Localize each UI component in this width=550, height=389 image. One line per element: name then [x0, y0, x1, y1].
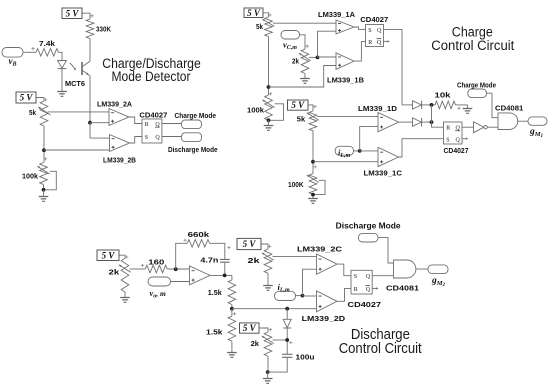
junction [285, 307, 289, 311]
wire to 1C- [360, 150, 378, 152]
wire to 1B- [318, 56, 337, 58]
ground [263, 286, 273, 291]
wire [124, 292, 126, 298]
potentiometer 2k (vC,m) [292, 49, 311, 74]
junction [430, 120, 434, 124]
potentiometer 5k [29, 101, 51, 126]
junction [285, 338, 289, 342]
svg-text:2k: 2k [109, 268, 121, 277]
svg-text:R: R [145, 122, 149, 128]
stub Q [462, 138, 468, 140]
resistor 1.5k (lower) [206, 309, 236, 353]
wire to 2A+ [90, 122, 109, 124]
comparator LM339_2C [317, 254, 338, 274]
terminal Discharge Mode (gate input) [336, 221, 401, 242]
power supply 5V (error amp ref) [97, 250, 119, 261]
wire [61, 69, 63, 92]
comparator LM339_2D [317, 291, 338, 312]
svg-text:5k: 5k [256, 22, 264, 31]
svg-text:Control Circuit: Control Circuit [339, 341, 422, 357]
svg-text:5k: 5k [297, 114, 306, 123]
svg-text:5 V: 5 V [102, 250, 116, 260]
svg-text:CD4027: CD4027 [139, 110, 167, 119]
comparator LM339_1A [336, 20, 354, 34]
wire [402, 104, 413, 106]
phototransistor of MCT6 [82, 61, 90, 76]
svg-text:Q: Q [366, 274, 371, 280]
wire to 2D- [303, 295, 317, 297]
AND gate CD4081 (discharge) [394, 260, 416, 278]
wire Q out [372, 275, 393, 277]
wire [268, 37, 270, 96]
diode (soft start) [283, 309, 291, 354]
junction [311, 193, 315, 197]
wire [259, 328, 268, 332]
wire [23, 51, 36, 53]
wire 2D out [337, 288, 351, 301]
comparator LM339_1D [378, 113, 399, 132]
svg-text:7.4k: 7.4k [39, 39, 56, 48]
junction [301, 294, 305, 298]
wire [89, 123, 91, 138]
pin marker [141, 264, 144, 267]
svg-text:Q: Q [377, 28, 382, 34]
svg-text:LM339_2D: LM339_2D [302, 314, 346, 323]
comparator LM339_1C [378, 147, 399, 166]
wire [304, 74, 306, 79]
svg-text:1.5k: 1.5k [208, 288, 223, 297]
potentiometer 2k (error amp) [109, 258, 131, 292]
wire [43, 190, 45, 196]
svg-text:Q: Q [377, 40, 382, 46]
svg-text:5k: 5k [29, 108, 37, 117]
flip-flop CD4027 (mode detector) [139, 110, 167, 143]
svg-text:LM339_2A: LM339_2A [97, 100, 133, 109]
svg-text:5 V: 5 V [20, 93, 34, 103]
flip-flop CD4027 (charge ctrl) [444, 122, 469, 155]
svg-text:Control Circuit: Control Circuit [431, 38, 514, 53]
junction [267, 118, 271, 122]
wire [261, 244, 268, 249]
svg-text:100k: 100k [22, 172, 39, 181]
label LM339_2C [297, 244, 343, 253]
svg-text:5 V: 5 V [243, 323, 257, 333]
wire to 1D+ [360, 126, 378, 150]
svg-text:2k: 2k [292, 56, 300, 65]
title Charge Control Circuit [431, 25, 514, 54]
wire [432, 105, 444, 127]
wire Q out [384, 29, 403, 105]
wire 1B out [354, 41, 366, 61]
terminal gM2 [428, 265, 448, 288]
wire 1A out [354, 27, 366, 29]
pin marker [314, 165, 317, 168]
wire [130, 268, 146, 270]
wire to 2D+ [232, 308, 317, 310]
svg-text:Q: Q [366, 287, 371, 293]
LED of optocoupler MCT6 [58, 61, 67, 69]
label LM339_2D [302, 314, 346, 323]
potentiometer 100k (charge low) [247, 95, 275, 120]
wire [36, 98, 44, 102]
wire [487, 126, 498, 128]
resistor 330K [86, 19, 111, 39]
terminal vB [2, 48, 23, 68]
terminal Discharge Mode [168, 133, 218, 154]
svg-text:vo, m: vo, m [150, 288, 167, 300]
wire [267, 372, 269, 378]
wire [59, 52, 63, 60]
wire [467, 105, 469, 109]
junction [42, 188, 46, 192]
svg-text:R: R [368, 40, 372, 46]
terminal iL,m (discharge) [275, 282, 296, 301]
svg-text:MCT6: MCT6 [65, 79, 85, 88]
svg-text:CD4081: CD4081 [386, 284, 419, 293]
label LM339_1B [327, 75, 365, 84]
op-amp (error amplifier) [190, 266, 211, 285]
junction [266, 370, 270, 374]
wire [82, 13, 90, 19]
pin marker [269, 328, 272, 331]
svg-text:160: 160 [148, 257, 164, 266]
wire wiper to 2A- [48, 111, 110, 113]
resistor 660k [187, 230, 210, 247]
potentiometer 100k [22, 163, 50, 185]
terminal gM1 [528, 117, 547, 139]
ground [463, 109, 473, 114]
svg-text:1.5k: 1.5k [206, 328, 223, 337]
wire [89, 39, 91, 62]
wire [378, 238, 394, 263]
stub Qbar [372, 287, 378, 289]
resistor 1.5k (upper) [208, 275, 236, 308]
svg-text:Discharge Mode: Discharge Mode [168, 147, 218, 154]
photon arrows [70, 63, 76, 70]
label LM339_2B [103, 155, 137, 164]
wire [487, 93, 499, 118]
pin marker [306, 45, 309, 48]
capacitor 100u [282, 353, 315, 362]
power supply 5V (1A divider) [244, 8, 263, 18]
svg-text:CD4027: CD4027 [444, 148, 469, 155]
wiper loop wire [269, 104, 284, 121]
power supply 5V (cap divider) [240, 323, 260, 333]
label CD4081 [386, 284, 419, 293]
wire 2A out [129, 117, 142, 124]
pin marker [44, 157, 47, 160]
pin marker [268, 245, 271, 248]
svg-text:CD4081: CD4081 [495, 104, 523, 113]
svg-text:4.7n: 4.7n [200, 255, 218, 264]
pin marker [31, 47, 34, 50]
pin marker [44, 98, 47, 101]
svg-text:S: S [145, 135, 148, 141]
wire [273, 339, 288, 341]
terminal Charge Mode (gate input) [457, 82, 496, 97]
svg-text:CD4027: CD4027 [360, 15, 388, 24]
junction [430, 103, 434, 107]
ground [263, 379, 273, 384]
pin marker [289, 341, 292, 344]
power supply 5V (1D divider) [288, 100, 309, 110]
svg-text:LM339_1A: LM339_1A [318, 10, 356, 19]
svg-text:S: S [446, 137, 449, 143]
svg-text:R: R [446, 126, 450, 132]
potentiometer 100K [288, 174, 319, 195]
wiper loop wire [44, 171, 57, 190]
ground [300, 79, 310, 84]
wire [89, 76, 91, 123]
wire 1C out [399, 139, 444, 157]
junction [311, 160, 315, 164]
ground [57, 92, 67, 97]
pin marker [183, 239, 186, 242]
svg-text:5 V: 5 V [243, 239, 257, 249]
terminal vo,m [148, 277, 171, 299]
wire [300, 35, 306, 49]
title Charge/Discharge Mode Detector [102, 56, 201, 84]
wire [416, 268, 428, 270]
wire Q out [162, 136, 182, 138]
svg-text:Q: Q [456, 137, 461, 143]
wire [309, 56, 318, 58]
wire to 1B+ [269, 66, 337, 88]
wire [267, 356, 269, 372]
svg-text:Q: Q [155, 135, 160, 141]
comparator LM339_2A [109, 109, 129, 126]
svg-text:S: S [354, 274, 357, 280]
svg-text:Charge Mode: Charge Mode [175, 113, 217, 120]
svg-text:660k: 660k [188, 230, 211, 239]
wire [268, 358, 288, 372]
flip-flop CD4027 (discharge ctrl) [348, 270, 382, 309]
junction [42, 148, 46, 152]
svg-text:100u: 100u [296, 353, 315, 362]
svg-text:LM339_2C: LM339_2C [297, 244, 343, 253]
svg-text:LM339_1B: LM339_1B [327, 75, 365, 84]
pin marker [233, 312, 236, 315]
label LM339_1D [358, 104, 398, 113]
wire [462, 126, 474, 128]
label LM339_2A [97, 100, 133, 109]
junction [88, 121, 92, 125]
svg-text:S: S [368, 28, 371, 34]
svg-text:100K: 100K [288, 180, 304, 189]
wire [422, 104, 435, 106]
label MCT6 [65, 79, 85, 88]
ground [264, 126, 274, 131]
wire [422, 121, 432, 123]
wire out [210, 274, 232, 276]
wiper loop wire [313, 180, 325, 198]
resistor 10k [435, 90, 456, 108]
wire [296, 295, 303, 297]
power supply 5V (2A/2B divider) [16, 92, 36, 103]
wire 2B out [130, 137, 143, 144]
svg-text:5 V: 5 V [247, 8, 261, 18]
terminal Charge Mode [175, 113, 217, 129]
wire to 1A+ [318, 31, 337, 57]
svg-text:5 V: 5 V [66, 8, 80, 18]
svg-text:LM339_1D: LM339_1D [358, 104, 398, 113]
capacitor 4.7n [200, 255, 229, 264]
stub Qbar [384, 40, 390, 42]
pin marker [90, 14, 93, 17]
comparator LM339_1B [336, 53, 354, 70]
resistor 160 [145, 257, 167, 273]
pin marker [457, 107, 460, 110]
junction [230, 307, 234, 311]
wire [263, 13, 269, 17]
junction [358, 149, 362, 153]
svg-text:2k: 2k [251, 339, 260, 348]
wire Qbar out [162, 123, 182, 125]
inverter [474, 122, 488, 133]
diode (Q output) [413, 101, 422, 109]
junction [223, 274, 227, 278]
resistor 7.4k [36, 39, 59, 56]
junction [174, 267, 178, 271]
svg-text:10k: 10k [435, 90, 452, 99]
wire to 2C+ [303, 269, 317, 295]
wire 2C out [337, 264, 351, 276]
svg-text:330K: 330K [96, 25, 111, 34]
wire to 2B- [90, 137, 110, 139]
svg-text:2k: 2k [248, 256, 261, 265]
wire [167, 268, 189, 270]
svg-text:LM339_2B: LM339_2B [103, 155, 137, 164]
svg-text:Charge Mode: Charge Mode [457, 82, 496, 89]
pin marker [125, 255, 128, 258]
svg-text:100k: 100k [247, 106, 265, 115]
terminal iL,m (charge) [335, 146, 353, 159]
wire [456, 104, 468, 106]
svg-text:Discharge Mode: Discharge Mode [336, 221, 401, 231]
pin marker [313, 105, 316, 108]
wire [518, 120, 528, 122]
wire [43, 126, 45, 163]
wire wiper to 1D- [317, 115, 378, 117]
wire to 1C+ [313, 161, 378, 163]
svg-text:5 V: 5 V [291, 100, 305, 110]
svg-text:R: R [354, 287, 358, 293]
wire [210, 243, 225, 258]
wire [312, 131, 314, 174]
flip-flop CD4027 (charge set) [360, 15, 388, 47]
pin marker [268, 13, 271, 16]
potentiometer 2k (soft start) [251, 332, 274, 356]
diode (1D output) [413, 118, 422, 126]
wire [171, 281, 190, 283]
wire [119, 255, 125, 258]
comparator LM339_2B [110, 135, 130, 152]
potentiometer 5k (charge) [256, 17, 274, 37]
terminal vC,m [281, 31, 300, 52]
svg-text:LM339_1C: LM339_1C [364, 168, 403, 177]
ground [39, 197, 49, 202]
pin marker [227, 246, 230, 249]
ground [308, 199, 318, 204]
junction [267, 85, 271, 89]
junction [316, 56, 320, 60]
power supply 5V (2C divider) [237, 238, 261, 249]
wire [267, 273, 269, 285]
wire 1D out [399, 121, 413, 123]
wire [224, 263, 226, 276]
ground [120, 298, 130, 303]
wire [268, 120, 270, 125]
svg-text:Mode Detector: Mode Detector [112, 69, 191, 84]
wire wiper to 1A- [273, 22, 336, 24]
ground [227, 353, 237, 358]
AND gate CD4081 (charge) [498, 113, 518, 130]
wire [354, 150, 360, 152]
pin marker [269, 92, 272, 95]
label LM339_1C [364, 168, 403, 177]
power supply 5V (mode detector pull-up) [62, 8, 82, 19]
wire to 2B+ [44, 149, 110, 151]
label LM339_1A [318, 10, 356, 19]
svg-text:CD4027: CD4027 [348, 300, 382, 309]
wire [308, 105, 313, 111]
title Discharge Control Circuit [339, 327, 422, 357]
wire feedback [176, 243, 188, 269]
label CD4081 [495, 104, 523, 113]
wire wiper to 2C- [273, 256, 317, 258]
potentiometer 2k (2C ref) [248, 249, 274, 273]
potentiometer 5k (current ref) [297, 111, 319, 131]
